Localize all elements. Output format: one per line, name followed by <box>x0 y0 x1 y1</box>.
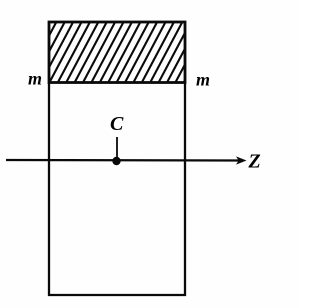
arrow head <box>236 156 247 164</box>
svg-text:Z: Z <box>248 151 261 173</box>
dot C <box>112 157 120 165</box>
svg-text:m: m <box>28 69 42 89</box>
tick from C to dot <box>116 137 118 158</box>
hatched bar fill lines <box>15 20 217 84</box>
axis line <box>6 159 241 162</box>
svg-text:C: C <box>110 113 124 135</box>
lower rectangle border <box>49 83 185 296</box>
hatched bar border <box>49 22 185 83</box>
svg-text:m: m <box>196 70 210 90</box>
